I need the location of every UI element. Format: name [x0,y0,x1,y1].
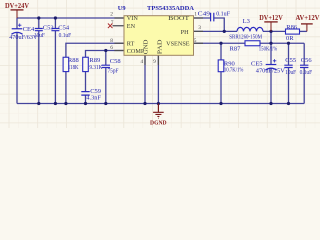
svg-text:VIN: VIN [127,15,139,22]
wire: R87 to output node and cap tops [260,42,304,44]
svg-text:C55: C55 [285,57,296,64]
wire: DV+24V rail to VIN pin [17,17,124,19]
resistor R86 [286,29,300,34]
capacitor C58 [102,65,110,67]
svg-text:R89: R89 [89,57,100,64]
svg-text:R88: R88 [68,57,79,64]
pin stubs of U9 [113,18,204,65]
wire: COMP pin to R89 [86,51,125,58]
wire: CE5 bottom to ground rail [270,68,272,103]
svg-text:TPS54335ADDA: TPS54335ADDA [147,5,194,12]
svg-text:10uF: 10uF [285,69,296,76]
svg-text:R87: R87 [230,45,242,52]
power port DV+24V [5,3,29,18]
junction: VSENSE divider [219,42,222,45]
svg-text:3: 3 [198,25,201,31]
wire: C53 bottom leg [38,31,40,104]
wire: GND pin to ground rail [144,55,146,103]
svg-text:DV+12V: DV+12V [259,15,283,22]
svg-text:BOOT: BOOT [168,15,189,22]
junction: CE5 top [269,42,272,45]
junction: ground rail at GND pin [143,102,146,105]
wire: R86 to AV+12V [300,30,307,32]
junction: ground rail at C58 [104,102,107,105]
svg-text:0.1uF: 0.1uF [216,10,230,17]
junction: C58 top [104,49,107,52]
capacitor C56 [300,65,308,67]
junction: output node at L3 [269,30,272,33]
svg-text:118K: 118K [68,64,79,71]
svg-text:L3: L3 [243,18,250,25]
resistor R88 [63,57,69,71]
wire: C53 top leg [38,18,40,29]
ground symbol DGND [150,104,167,127]
svg-text:10.7K/1%: 10.7K/1% [224,66,244,73]
capacitor C59 [81,92,89,96]
wire: R90 top leg [220,43,222,60]
svg-text:PH: PH [181,29,189,36]
junction: ground rail at CE5 [269,102,272,105]
svg-text:C56: C56 [301,57,313,64]
capacitor CE4 (polarized) [11,24,22,35]
wire: R89 bottom to C59 [85,72,87,92]
svg-text:VSENSE: VSENSE [166,41,190,48]
svg-text:C49: C49 [198,10,210,17]
wire: C55 top leg [288,43,290,65]
svg-text:150K/1%: 150K/1% [259,45,278,52]
svg-text:EN: EN [127,23,136,30]
resistor R89 [83,57,89,71]
power port AV+12V [296,15,320,31]
wire: output node down to CE5 [270,31,272,64]
wire: VSENSE pin to R87 [194,42,246,44]
svg-text:AV+12V: AV+12V [296,15,320,22]
U9 pin numbers [110,12,201,65]
svg-text:RT: RT [127,41,135,48]
wire: C56 bottom to ground rail [303,68,305,104]
svg-text:5: 5 [194,38,197,44]
svg-text:0.1uF: 0.1uF [59,32,72,39]
svg-text:0R: 0R [286,35,294,42]
junction: ground rail at C59 [84,102,87,105]
svg-text:75pF: 75pF [108,68,119,75]
junction: ground rail at C54 [54,102,57,105]
no-connect X on EN pin [108,24,113,29]
wire: C58 top leg [105,51,107,66]
wire: PAD pin to ground rail [157,55,159,103]
resistor R87 [245,41,260,46]
junction: ground rail at R88 [64,102,67,105]
junction: C53 top [37,16,40,19]
capacitor C55 [284,65,292,67]
inductor L3 [237,27,263,31]
wire: BOOT pin to C49 [194,17,211,19]
svg-text:4.3nF: 4.3nF [86,95,101,102]
svg-text:R86: R86 [286,24,298,31]
junction: C49 to PH [223,30,226,33]
junction: C55 top [287,42,290,45]
svg-text:C58: C58 [110,58,121,65]
svg-text:9: 9 [153,59,156,65]
svg-text:GND: GND [142,39,149,54]
svg-text:2: 2 [110,12,113,18]
resistor R90 [218,60,224,72]
svg-text:CE5: CE5 [251,61,263,68]
capacitor C53 [35,29,43,31]
grid (decorative) [0,0,320,128]
capacitor C49 (boot) [211,13,214,22]
capacitor CE5 (polarized) [265,59,276,70]
wire: CE4 top leg [16,18,18,29]
wire: RT pin to R88 [66,43,124,57]
power port DV+12V [259,15,283,31]
wire: L3 to R86 [263,30,286,32]
svg-text:DV+24V: DV+24V [5,3,29,10]
wire: C56 top leg [303,43,305,65]
wire: C54 top leg [54,18,56,29]
svg-text:10uF: 10uF [34,32,45,39]
junction: ground rail at C53 [37,102,40,105]
junction: C54 top [54,16,57,19]
junction: ground rail at R90 [219,102,222,105]
wire: C59 bottom to ground rail [85,95,87,103]
capacitor C54 [51,29,59,31]
wire: PH pin to L3 [194,30,238,32]
svg-text:0.1uF: 0.1uF [300,69,313,76]
svg-text:470uF/25V: 470uF/25V [256,68,285,75]
wire: C55 bottom to ground rail [288,68,290,104]
svg-text:C54: C54 [58,25,70,32]
U9 pin names [127,15,190,55]
wire: ground rail [17,103,304,105]
wire: C58 bottom to ground rail [105,68,107,104]
wire: R90 bottom to ground rail [220,72,222,104]
svg-text:9.31K: 9.31K [89,64,102,71]
svg-text:4: 4 [140,59,143,65]
svg-text:U9: U9 [118,5,126,12]
svg-text:PAD: PAD [156,39,163,54]
svg-text:DGND: DGND [150,119,167,126]
junction: ground rail at C55 [287,102,290,105]
svg-text:SRR1260-150M: SRR1260-150M [229,33,262,40]
IC U9 TPS54335ADDA body [118,5,195,56]
svg-text:8: 8 [110,38,113,44]
wire: C49 to PH node [214,18,224,31]
wire: CE4 bottom leg to ground rail [16,32,18,103]
svg-text:6: 6 [110,45,113,51]
wire: R88 bottom to ground rail [65,72,67,104]
junction: ground rail at DGND [157,102,160,105]
wire: C54 bottom leg [54,31,56,104]
